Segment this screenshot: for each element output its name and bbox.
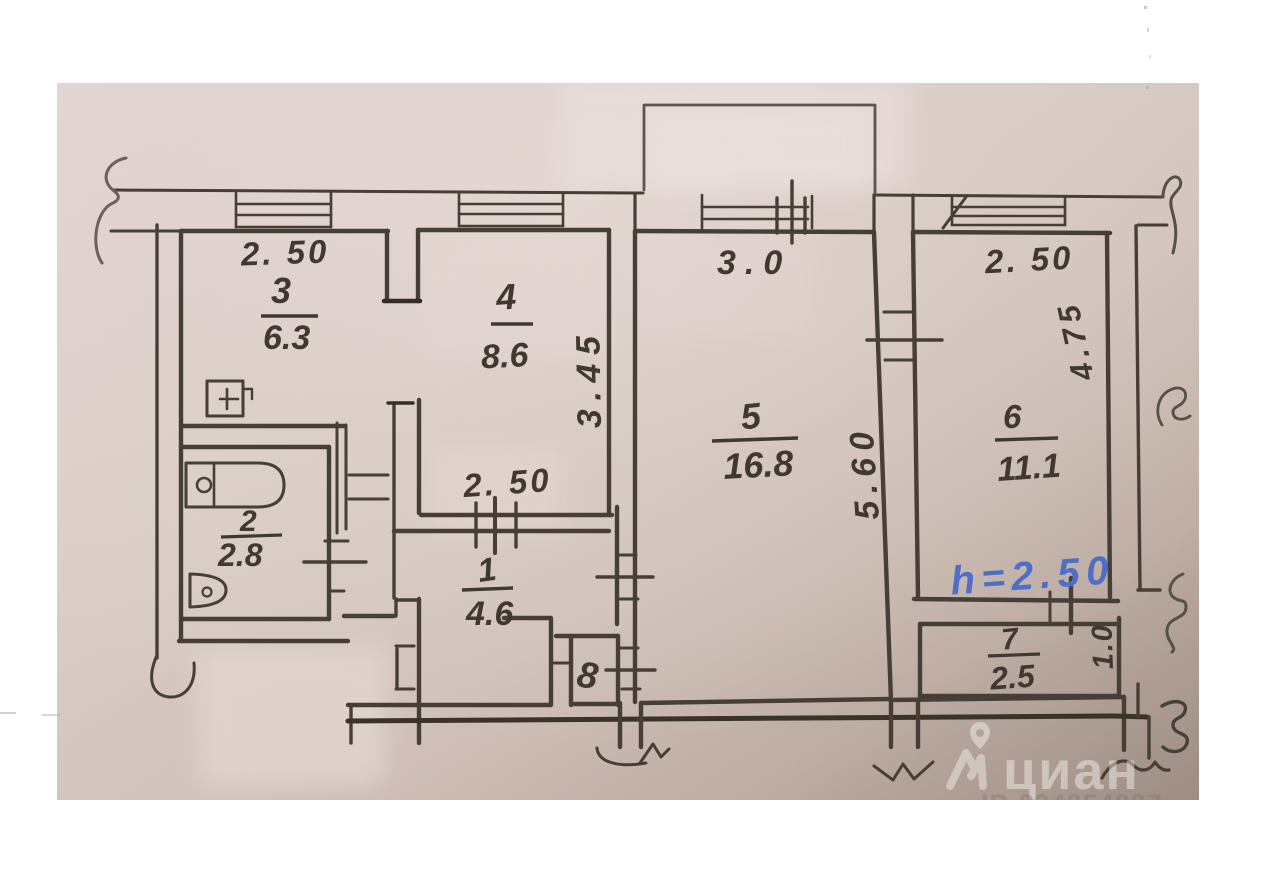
entrance door zigzag	[640, 744, 669, 763]
room5/6 opening tick upper	[884, 311, 914, 314]
vent box right tick	[243, 389, 252, 399]
hall/room4 door centre stroke	[493, 498, 497, 553]
room7 right wall	[1117, 618, 1121, 696]
room5 left wall	[633, 232, 637, 702]
light patch room5 top	[640, 235, 815, 335]
closet8 door leaf	[606, 668, 655, 671]
room5 left wall upper stub	[633, 195, 636, 232]
bottom inner wall left jamb	[349, 705, 352, 743]
svg-text:5.60: 5.60	[843, 431, 887, 522]
closet8 left wall	[569, 636, 573, 705]
outer right wall top stub	[1138, 224, 1167, 227]
room7 bottom wall	[920, 694, 1119, 698]
toilet	[190, 574, 226, 607]
vent box room3	[207, 381, 243, 416]
underline room3	[261, 314, 318, 317]
hall bottom wall left piece	[344, 614, 394, 618]
underline room6	[995, 438, 1058, 440]
closet8 door jamb upper	[620, 647, 638, 650]
room4 top wall	[418, 228, 609, 232]
room3 top wall	[181, 229, 388, 233]
bottom outer wall	[348, 716, 1114, 721]
mid vertical wall (room3 area to hall)	[392, 404, 395, 598]
underline room4	[491, 322, 533, 325]
svg-text:2. 50: 2. 50	[239, 232, 330, 272]
bottom-right corner vertical inner	[1122, 697, 1126, 750]
closet8 tick	[554, 662, 571, 665]
left wall top stub	[111, 230, 181, 233]
room6 right wall	[1107, 233, 1110, 597]
closet8 top wall	[556, 634, 618, 638]
vestibule door tick lower	[396, 688, 414, 691]
hall/room5 door jamb lower	[620, 598, 638, 601]
bathroom top wall	[181, 445, 329, 449]
hall1 top wall	[394, 529, 609, 533]
svg-text:4: 4	[494, 276, 518, 318]
outer right wall bottom tick	[1138, 588, 1160, 591]
bottom outer wall right extension	[1114, 716, 1147, 717]
closet8 door jamb lower	[622, 688, 640, 691]
toilet flush dot	[203, 588, 212, 597]
corridor wall right of bathroom line1	[336, 423, 339, 533]
hall right wall	[615, 507, 619, 624]
svg-text:3: 3	[271, 270, 291, 311]
outer left wall	[155, 225, 158, 658]
entrance door swing arc	[597, 748, 646, 765]
svg-text:11.1: 11.1	[996, 447, 1062, 489]
light patch top-center strip	[560, 75, 910, 187]
room5 bottom wall	[641, 699, 890, 703]
grain texture	[57, 83, 1199, 800]
warm tint overlay	[57, 83, 1199, 800]
bottom wall under rooms6-7	[890, 697, 1124, 700]
room3 bottom wall	[181, 424, 345, 428]
room7 top wall	[920, 622, 1119, 626]
vestibule connector	[396, 598, 419, 601]
watermark pin icon	[970, 722, 990, 749]
window W1 room3	[236, 193, 331, 227]
right wall lower squiggle	[1167, 574, 1186, 652]
entrance niche arc bottom-left	[152, 655, 195, 697]
light patch balcony interior	[650, 108, 870, 188]
bathroom door jamb upper	[325, 540, 348, 543]
outer top wall right part	[874, 195, 1163, 197]
balcony door jambs	[775, 198, 778, 233]
pier room3/room4 right line	[416, 230, 420, 301]
room5/6 opening tick lower	[885, 359, 915, 362]
svg-text:2. 50: 2. 50	[461, 461, 553, 504]
bathroom upper door jamb ticks	[349, 474, 388, 477]
bathroom door leaf line	[304, 560, 366, 563]
bottom-right wavy mark	[1102, 761, 1169, 778]
handwritten labels	[217, 232, 1120, 697]
window W4 room6	[952, 197, 1065, 225]
underline room7	[988, 654, 1040, 656]
underline room2	[221, 535, 282, 537]
outer right wall	[1136, 226, 1140, 588]
bathroom right wall	[327, 447, 331, 619]
bathtub	[186, 463, 284, 507]
inner left wall	[179, 231, 183, 641]
left break squiggle	[96, 158, 126, 263]
room5/6 opening leaf	[867, 338, 942, 341]
room6 bottom wall	[914, 599, 1118, 601]
svg-text:ID 234254887: ID 234254887	[981, 789, 1163, 819]
bathtub head line	[213, 463, 216, 507]
hall bottom wall right piece	[504, 616, 551, 620]
room6/7 door tick	[1049, 592, 1052, 622]
entrance door jamb right	[639, 703, 643, 747]
underline room5	[712, 438, 798, 441]
svg-text:2.8: 2.8	[217, 537, 263, 573]
room6/7 door stroke	[1069, 578, 1073, 633]
bottom inner wall	[348, 703, 551, 707]
room4 right wall	[607, 230, 611, 515]
mid vertical top cap	[388, 401, 413, 404]
light patch bottom-left	[200, 650, 385, 786]
svg-text:2.5: 2.5	[988, 658, 1037, 697]
svg-text:2: 2	[239, 505, 257, 538]
vestibule right wall	[417, 599, 421, 743]
vestibule door tick upper	[396, 645, 414, 648]
room4 left wall lower	[417, 400, 421, 513]
pier wall room6 vertical	[911, 195, 914, 232]
balcony	[644, 105, 875, 195]
bottom-right big squiggle	[1162, 702, 1187, 752]
right wall mid squiggle	[1158, 388, 1190, 425]
room6 left wall	[913, 232, 918, 598]
window W2 room4	[459, 193, 563, 226]
stair zigzag mark	[874, 762, 933, 780]
photo of paper plan	[57, 75, 1199, 819]
svg-text:6.3: 6.3	[263, 319, 310, 357]
light patch room4	[425, 235, 605, 355]
room5 top wall	[635, 231, 874, 232]
svg-text:2. 50: 2. 50	[983, 239, 1074, 281]
bottom-right corner vertical outer	[1147, 717, 1150, 758]
window W4 diagonal	[943, 197, 966, 228]
svg-text:3.45: 3.45	[569, 335, 609, 429]
hall/room5 door jamb upper	[620, 554, 636, 557]
outer top wall left part	[115, 190, 643, 193]
pier room3/room4 left line	[385, 231, 389, 301]
bathtub drain	[197, 478, 211, 492]
lower-left corridor wall	[179, 639, 348, 643]
room6 top wall	[913, 232, 1110, 233]
margin artifact dashes left	[0, 713, 60, 715]
light patch hall label	[430, 448, 565, 532]
svg-text:6: 6	[1003, 398, 1022, 435]
bathroom door jamb lower	[330, 590, 344, 593]
vestibule left wall lower	[395, 649, 398, 689]
vestibule left wall upper	[394, 599, 397, 616]
svg-text:1.0: 1.0	[1086, 625, 1120, 670]
room4 bottom wall	[421, 513, 612, 517]
closet8 bottom wall	[571, 702, 618, 706]
vent box inner mark	[220, 389, 238, 409]
hall/room5 door leaf	[597, 575, 653, 578]
stair wall left line below	[889, 701, 893, 747]
window W3 balcony door	[702, 195, 812, 231]
hall/room4 door jamb left	[474, 503, 477, 547]
underline room1	[462, 588, 513, 590]
dust specks above photo	[1144, 6, 1151, 89]
watermark cian logo mark	[950, 753, 983, 786]
bathroom bottom wall	[182, 617, 329, 621]
corridor wall right of bathroom line2	[345, 425, 348, 529]
svg-text:16.8: 16.8	[722, 442, 794, 487]
room7 left wall	[918, 624, 922, 696]
svg-text:4.6: 4.6	[465, 595, 514, 633]
closet8 right wall	[616, 636, 620, 705]
entrance door jamb left	[618, 703, 622, 747]
hall/room4 door jamb right	[514, 503, 517, 547]
pier wall balcony-right vertical	[872, 195, 875, 232]
room5 right wall	[874, 233, 891, 701]
hall corner wall down	[549, 620, 553, 704]
pier bottom cap	[384, 299, 420, 304]
svg-text:8.6: 8.6	[480, 336, 530, 376]
stair wall right line below	[916, 701, 920, 747]
right outer wall lower stub	[1136, 684, 1139, 716]
svg-text:3.0: 3.0	[717, 244, 791, 282]
right break squiggle top	[1163, 177, 1181, 253]
